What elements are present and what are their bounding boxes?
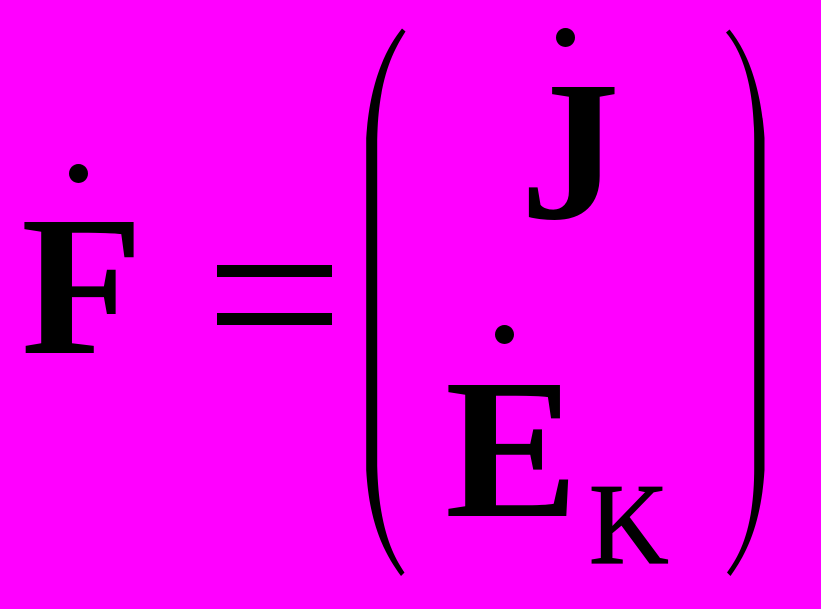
left parenthesis: [366, 29, 405, 577]
right parenthesis: [726, 30, 765, 577]
equals sign bottom bar: [217, 313, 332, 325]
letter J (numerator): [520, 52, 620, 252]
subscript K: [589, 467, 669, 583]
dot above F: [69, 164, 88, 183]
letter E (denominator): [445, 350, 578, 550]
letter F (vector symbol F-dot): [21, 187, 143, 387]
dot above E: [495, 325, 514, 344]
dot above J: [556, 28, 575, 47]
equals sign top bar: [217, 265, 332, 277]
